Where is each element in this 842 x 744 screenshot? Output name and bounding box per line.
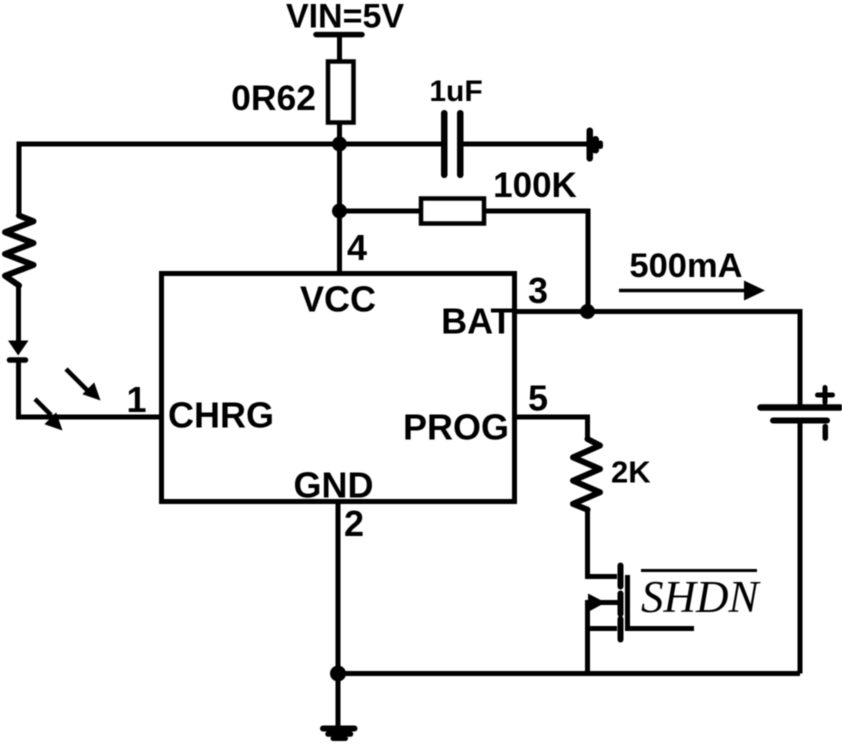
battery BT1 bottom plate xyxy=(773,418,827,424)
power flag VIN bar xyxy=(316,32,362,38)
svg-text:SHDN: SHDN xyxy=(641,572,761,622)
wire LED D1 to CHRG corner xyxy=(19,360,31,417)
transistor Q1 channel bar middle xyxy=(618,594,624,615)
transistor Q1 channel bar top xyxy=(618,566,624,587)
battery BT1 minus sign xyxy=(823,427,829,439)
svg-text:500mA: 500mA xyxy=(629,247,742,285)
transistor Q1 gate bar and gate lead xyxy=(628,575,695,629)
resistor R4 2K zigzag xyxy=(573,439,600,510)
svg-text:1uF: 1uF xyxy=(429,75,482,108)
LED D1 cathode bar xyxy=(10,357,26,363)
LED D1 triangle xyxy=(8,341,29,356)
node D junction dot on rail xyxy=(330,666,346,682)
wire R2 to BAT node xyxy=(484,211,588,312)
wire node B down to pin 4 xyxy=(337,211,342,275)
svg-text:BAT: BAT xyxy=(441,301,512,342)
wire VIN bar to R1 xyxy=(337,35,342,63)
IC U1 body xyxy=(162,274,515,502)
svg-text:4: 4 xyxy=(347,227,367,268)
capacitor C1 left plate xyxy=(441,110,448,178)
SHDN overline xyxy=(641,569,757,572)
transistor Q1 source stub xyxy=(588,626,618,631)
svg-text:VIN=5V: VIN=5V xyxy=(286,0,404,36)
svg-text:VCC: VCC xyxy=(300,279,376,320)
svg-text:PROG: PROG xyxy=(403,407,509,448)
wire node B to R2 xyxy=(340,209,423,214)
wire BAT pin 3 to battery xyxy=(515,312,800,406)
node A junction dot xyxy=(332,137,347,152)
svg-text:3: 3 xyxy=(528,270,548,311)
battery BT1 top plate xyxy=(761,404,841,411)
svg-text:1: 1 xyxy=(126,379,146,420)
ground flag at C1 xyxy=(587,128,604,162)
wire CHRG pin 1 to LED branch xyxy=(19,415,162,420)
wire Q1 source down to rail xyxy=(585,600,590,674)
transistor Q1 body stub with arrow xyxy=(588,594,618,613)
ground symbol xyxy=(323,729,355,739)
wire rail to ground xyxy=(336,674,341,727)
current arrow 500mA xyxy=(619,281,765,301)
svg-text:100K: 100K xyxy=(493,166,577,205)
svg-text:0R62: 0R62 xyxy=(231,78,316,118)
resistor R3 zigzag (LED series) xyxy=(5,216,34,286)
wire R4 to Q1 drain xyxy=(588,509,618,577)
wire C1 right plate to gnd flag xyxy=(464,142,589,147)
svg-text:5: 5 xyxy=(528,378,548,419)
svg-text:GND: GND xyxy=(294,465,374,506)
capacitor C1 right plate xyxy=(457,110,464,178)
battery BT1 plus sign xyxy=(818,388,833,403)
node C junction dot on BAT wire xyxy=(580,304,595,319)
svg-text:2: 2 xyxy=(344,503,364,544)
svg-text:CHRG: CHRG xyxy=(168,395,274,436)
wire bottom rail xyxy=(338,671,800,676)
wire PROG pin 5 to R4 xyxy=(515,417,588,440)
node B junction dot xyxy=(332,204,347,219)
resistor R1 0R62 body xyxy=(328,62,354,123)
svg-text:2K: 2K xyxy=(611,455,651,490)
wire top-left from LED branch to C1 left plate xyxy=(19,144,441,216)
wire battery negative to rail xyxy=(798,424,803,674)
wire node A down to node B xyxy=(337,144,342,211)
wire R3 to LED D1 xyxy=(16,286,21,342)
transistor Q1 channel bar bottom xyxy=(618,619,624,640)
LED arrow 2 xyxy=(35,399,63,431)
wire GND pin 2 down xyxy=(336,502,341,674)
wire R1 to node A xyxy=(337,123,342,145)
resistor R2 100K body xyxy=(421,199,484,224)
LED arrow 1 xyxy=(66,369,101,401)
